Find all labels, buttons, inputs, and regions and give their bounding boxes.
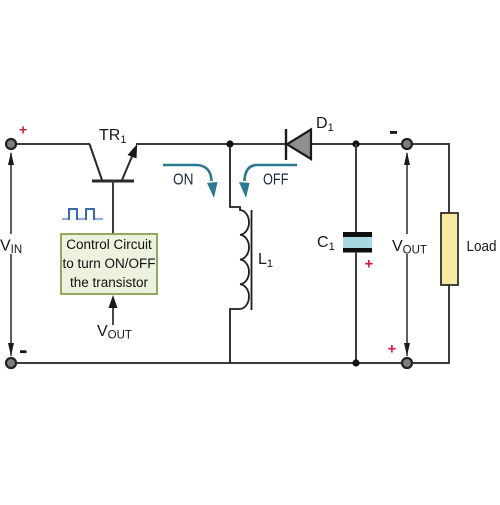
node junction at capacitor top	[352, 140, 359, 147]
arrow from VOUT into control box	[112, 305, 114, 325]
OFF arrow (teal)	[245, 165, 298, 181]
capacitor C1	[343, 237, 372, 248]
black minus at output top	[390, 131, 397, 134]
wire top from transistor emitter to right corner	[136, 143, 449, 145]
VOUT measurement arrow	[406, 153, 408, 356]
input terminal top	[6, 139, 16, 149]
node junction at inductor top	[226, 140, 233, 147]
wire bottom rail	[11, 362, 449, 364]
transistor TR1 base lead down to control box	[112, 181, 114, 234]
input terminal bottom	[6, 358, 16, 368]
svg-text:Control Circuit: Control Circuit	[66, 237, 152, 252]
wire load bottom to bottom rail	[448, 284, 450, 364]
black minus at input bottom	[20, 350, 27, 353]
ON arrow (teal)	[163, 165, 212, 181]
diode D1 cathode bar	[285, 129, 287, 160]
VIN measurement arrow	[10, 153, 12, 356]
load resistor box	[441, 213, 458, 285]
svg-text:ON: ON	[173, 172, 194, 189]
svg-text:+: +	[365, 256, 374, 273]
wire capacitor top lead	[355, 144, 357, 233]
wire right side down to load	[448, 143, 450, 214]
inductor L1 core line	[251, 210, 253, 310]
transistor TR1 base bar	[92, 180, 134, 183]
transistor TR1 emitter lead with arrow	[122, 154, 133, 180]
svg-text:the transistor: the transistor	[70, 275, 149, 290]
wire top from input terminal to transistor collector	[11, 143, 90, 145]
output terminal bottom	[402, 358, 412, 368]
svg-text:to turn ON/OFF: to turn ON/OFF	[62, 256, 155, 271]
square wave symbol pulses	[69, 209, 94, 220]
square wave symbol baseline segments	[62, 218, 103, 220]
svg-text:+: +	[19, 122, 27, 138]
svg-text:OFF: OFF	[263, 172, 289, 189]
svg-text:+: +	[388, 341, 397, 358]
transistor TR1 collector lead	[90, 144, 103, 180]
control circuit box	[61, 234, 157, 294]
node junction at capacitor bottom	[352, 359, 359, 366]
output terminal top	[402, 139, 412, 149]
wire capacitor bottom lead	[355, 252, 357, 363]
inductor L1 coil	[230, 145, 249, 363]
svg-text:Load: Load	[467, 238, 497, 255]
diode D1 triangle	[287, 130, 311, 160]
